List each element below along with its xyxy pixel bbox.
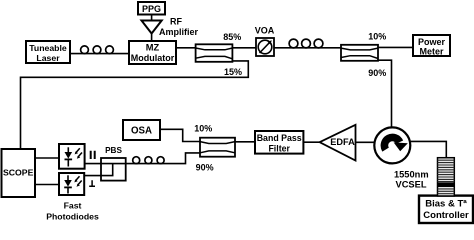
svg-text:10%: 10%	[368, 31, 386, 41]
svg-text:90%: 90%	[196, 163, 214, 173]
svg-text:Controller: Controller	[423, 210, 469, 221]
svg-text:MZ: MZ	[146, 43, 160, 53]
svg-text:85%: 85%	[223, 32, 241, 42]
svg-text:Filter: Filter	[268, 144, 290, 154]
svg-text:VCSEL: VCSEL	[396, 180, 427, 190]
svg-text:PPG: PPG	[142, 4, 161, 14]
svg-text:Power: Power	[418, 37, 446, 47]
svg-text:Amplifier: Amplifier	[159, 27, 199, 37]
svg-text:Fast: Fast	[64, 201, 82, 211]
svg-text:1550nm: 1550nm	[394, 170, 429, 180]
svg-text:Meter: Meter	[419, 47, 444, 57]
svg-text:VOA: VOA	[255, 26, 275, 36]
svg-text:90%: 90%	[368, 68, 386, 78]
svg-text:Photodiodes: Photodiodes	[46, 211, 99, 221]
svg-text:RF: RF	[170, 17, 182, 27]
svg-text:15%: 15%	[224, 67, 242, 77]
svg-text:Tuneable: Tuneable	[29, 43, 67, 53]
svg-text:EDFA: EDFA	[330, 137, 355, 147]
svg-text:PBS: PBS	[105, 146, 122, 155]
svg-text:SCOPE: SCOPE	[3, 167, 34, 177]
svg-text:Band Pass: Band Pass	[257, 133, 302, 143]
svg-text:OSA: OSA	[131, 126, 152, 137]
svg-text:Bias & Tª: Bias & Tª	[425, 198, 467, 209]
svg-text:Modulator: Modulator	[131, 53, 175, 63]
svg-text:10%: 10%	[194, 123, 212, 133]
svg-text:Laser: Laser	[36, 53, 60, 63]
